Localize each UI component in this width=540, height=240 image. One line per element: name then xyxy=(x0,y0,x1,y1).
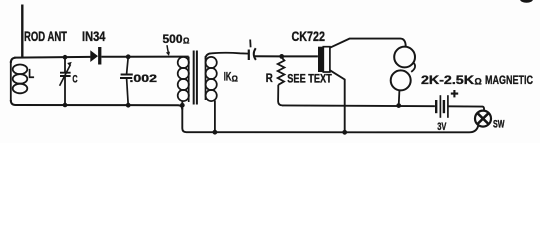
junction node dot primary bottom xyxy=(180,103,185,108)
svg-text:ROD ANT: ROD ANT xyxy=(24,29,68,44)
svg-text:Ω: Ω xyxy=(232,75,238,84)
transistor bottom lead wire xyxy=(330,70,345,132)
junction node dot base xyxy=(279,54,284,59)
capacitor .002 branch wire top xyxy=(127,57,129,74)
transistor top lead wire to phones xyxy=(330,39,406,48)
antenna lead wire xyxy=(21,5,23,58)
tick above capacitor xyxy=(249,40,251,48)
transformer T1 secondary bottom lead wire xyxy=(214,101,216,133)
top-left corner wire xyxy=(11,58,16,63)
svg-text:SEE TEXT: SEE TEXT xyxy=(287,72,332,86)
junction node dot C bottom xyxy=(63,103,68,108)
battery plus sign xyxy=(451,90,458,97)
battery B1 plates xyxy=(435,100,437,113)
transformer T1 secondary loops xyxy=(206,57,217,68)
resistor R bottom wire xyxy=(278,85,282,106)
variable capacitor C branch wire top xyxy=(64,57,66,72)
svg-text:IN34: IN34 xyxy=(82,29,106,44)
svg-text:L: L xyxy=(28,66,34,81)
svg-text:R: R xyxy=(266,73,274,85)
svg-text:Ω: Ω xyxy=(475,77,482,87)
transformer core bars xyxy=(194,51,197,105)
coupling capacitor right plate curved xyxy=(254,48,256,60)
corner blob top right xyxy=(520,0,533,3)
tank top rail wire xyxy=(14,56,90,59)
headphone cord link xyxy=(411,63,415,72)
diode 1N34 triangle xyxy=(90,50,98,62)
diode 1N34 cathode bar xyxy=(98,47,101,65)
headphone bottom lead wire xyxy=(398,90,401,105)
transformer T1 primary loops xyxy=(178,57,189,68)
junction node dot xyxy=(126,54,131,59)
transformer T1 primary vertical wire xyxy=(188,57,190,102)
svg-text:C: C xyxy=(72,73,77,85)
variable capacitor C plates xyxy=(60,73,71,76)
junction node dot secondary bottom xyxy=(213,130,218,135)
transformer T1 primary bottom lead wire xyxy=(181,101,183,105)
headphone bottom earpiece xyxy=(391,70,411,90)
headphone top earpiece xyxy=(394,47,415,68)
switch SW circle xyxy=(475,111,491,127)
svg-text:IK: IK xyxy=(224,69,232,83)
coil L loops xyxy=(13,65,28,75)
capacitor .002 branch wire bottom xyxy=(127,78,129,105)
junction node dot at ground rail xyxy=(342,130,347,135)
svg-text:CK722: CK722 xyxy=(292,29,326,44)
transformer T1 secondary top lead wire xyxy=(206,53,249,59)
variable capacitor arrow xyxy=(60,65,71,86)
switch SW cross xyxy=(478,113,489,124)
svg-text:2K-2.5K: 2K-2.5K xyxy=(421,73,474,87)
capacitor .002 plates xyxy=(121,74,133,76)
tank bottom rail wire xyxy=(11,100,183,110)
ground rail wire xyxy=(182,108,478,132)
coil L left vertical wire xyxy=(10,61,12,101)
svg-text:MAGNETIC: MAGNETIC xyxy=(485,73,533,87)
svg-text:Ω: Ω xyxy=(183,37,190,46)
variable capacitor C branch wire bottom xyxy=(64,76,66,105)
svg-text:3V: 3V xyxy=(437,121,447,133)
svg-text:500: 500 xyxy=(163,33,183,46)
transistor CK722 filled bar xyxy=(318,47,323,72)
wire battery to switch xyxy=(448,106,484,110)
rail C wire resistor to battery xyxy=(282,104,435,107)
junction node dot bottom xyxy=(126,103,131,108)
svg-text:.002: .002 xyxy=(130,73,158,85)
wire capacitor to base junction xyxy=(255,55,318,57)
junction node dot C top xyxy=(63,55,68,60)
transformer T1 secondary vertical wire xyxy=(205,56,207,100)
transistor CK722 open body xyxy=(323,47,330,72)
coupling capacitor left plate xyxy=(248,50,250,61)
junction node dot phones xyxy=(396,103,401,108)
wire diode to transformer xyxy=(101,56,188,58)
svg-text:SW: SW xyxy=(493,119,505,131)
resistor R zigzag xyxy=(278,58,285,85)
arrow 500 ohm to primary xyxy=(167,45,168,53)
